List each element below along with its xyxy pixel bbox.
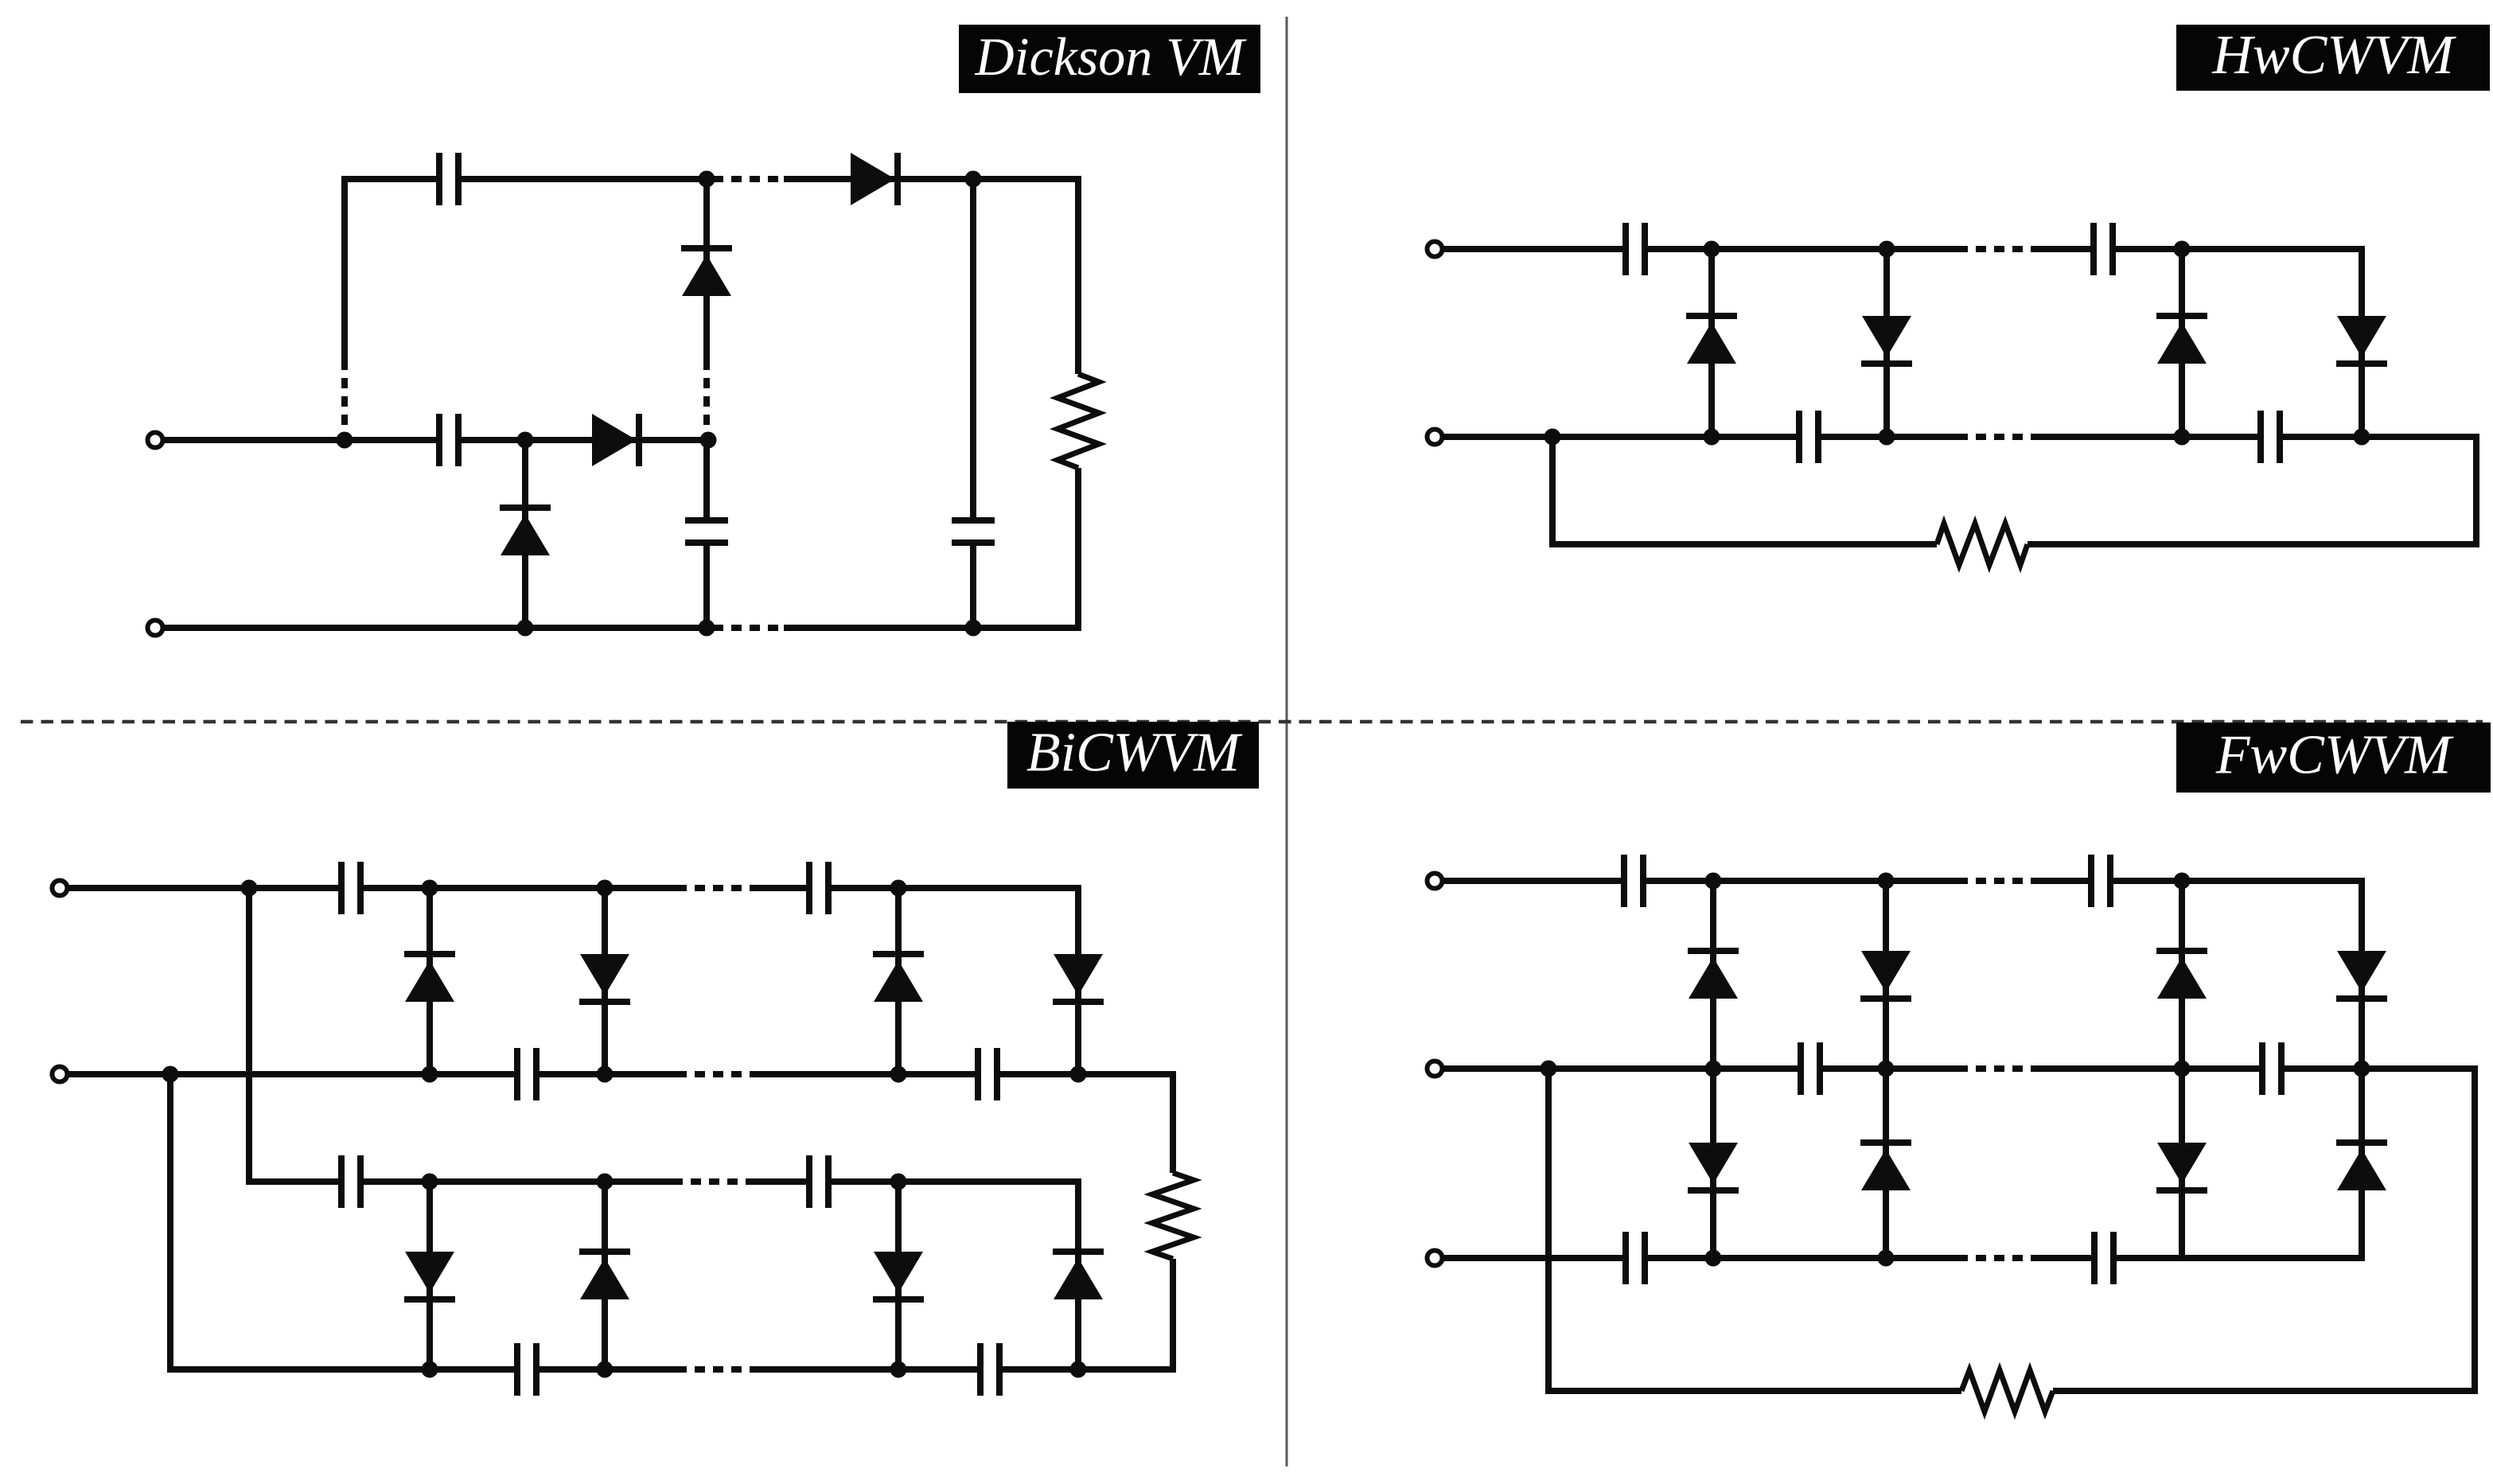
junction: FwCWVM rail1 at D18 column (1878, 873, 1895, 890)
diode D16 (BiCWVM lower, pointing up) (1053, 1252, 1104, 1299)
wire: Dickson load branch, R1 down to bottom rail corner (1075, 468, 1081, 631)
wire: BiCWVM rail4 dashed continuation (676, 1366, 752, 1373)
diode D10 (BiCWVM upper, pointing down) (579, 954, 630, 1002)
divider: vertical quadrant separator (1286, 17, 1288, 1466)
wire: BiCWVM rail2, dashes to C12 (752, 1071, 978, 1077)
diode D1 (Dickson clamp, pointing up) (500, 508, 551, 555)
wire: HwCWVM top rail, C6 to right corner (2113, 246, 2365, 252)
junction: HwCWVM bottom rail at D8 column (2354, 429, 2370, 446)
wire: FwCWVM D19 column (2179, 881, 2185, 1069)
junction: FwCWVM rail1 at D17 column (1705, 873, 1722, 890)
junction: HwCWVM bottom rail at D6 column (1879, 429, 1895, 446)
capacitor C8 (HwCWVM bottom rail stage n) (2261, 411, 2280, 463)
label: Dickson VM title box (959, 25, 1260, 93)
resistor R4 (FwCWVM load) (1961, 1370, 2053, 1412)
diode D14 (BiCWVM lower, pointing up) (579, 1252, 630, 1299)
junction: FwCWVM rail3 at D22 column (1878, 1250, 1895, 1267)
junction: BiCWVM rail4 at D15 column (890, 1361, 907, 1378)
wire: Dickson C3 to bottom rail (703, 543, 710, 628)
wire: BiCWVM rail3, C13 to dashes (360, 1178, 672, 1185)
wire: FwCWVM right load leg up to rail2 corner (2472, 1065, 2478, 1394)
diode D23 (FwCWVM lower, pointing down) (2156, 1143, 2207, 1190)
wire: BiCWVM rail4, C16 to right corner (999, 1366, 1176, 1373)
svg-text:HwCWVM: HwCWVM (2211, 25, 2456, 86)
capacitor C10 (BiCWVM rail1 stage n) (809, 862, 828, 914)
wire: Dickson bottom rail, dashes to load corner (784, 625, 1081, 631)
junction: BiCWVM rail4 at D16 column (1070, 1361, 1087, 1378)
diode D19 (FwCWVM upper, pointing up) (2156, 951, 2207, 999)
resistor R3 (BiCWVM load) (1152, 1173, 1194, 1259)
wire: BiCWVM rail1, C9 to dashes (360, 885, 676, 891)
junction: FwCWVM rail2 at D19 column (2174, 1061, 2191, 1077)
diode D17 (FwCWVM upper, pointing up) (1688, 951, 1739, 999)
wire: BiCWVM rail1, terminal to C9 (68, 885, 341, 891)
diode D6 (HwCWVM, pointing down) (1861, 316, 1912, 364)
wire: FwCWVM rail3, C22 to right corner (2113, 1255, 2365, 1261)
terminal: HwCWVM input top (1428, 242, 1443, 257)
wire: BiCWVM rail3 dashed continuation (672, 1178, 748, 1185)
diode D24 (FwCWVM lower, pointing up) (2336, 1143, 2387, 1190)
junction: node X4 on Dickson bottom rail (699, 620, 715, 637)
capacitor C2 (Dickson mid-rail coupling cap) (439, 414, 458, 466)
wire: FwCWVM D18 column (1883, 881, 1889, 1069)
wire: HwCWVM D5 column (1708, 249, 1715, 437)
wire: HwCWVM D7 column (2179, 249, 2185, 437)
wire: BiCWVM rail1 dashed continuation (676, 885, 752, 891)
wire: HwCWVM right leg down to load loop (2473, 434, 2479, 547)
capacitor C7 (HwCWVM bottom rail stage 1) (1799, 411, 1818, 463)
terminal: BiCWVM input bottom (53, 1067, 68, 1082)
junction: node X3 on Dickson top rail (699, 171, 715, 188)
capacitor C20 (FwCWVM rail2 stage n) (2262, 1042, 2281, 1095)
junction: BiCWVM rail1 at D11 column (890, 880, 907, 897)
wire: FwCWVM rail1, terminal to C17 (1443, 878, 1624, 884)
terminal: BiCWVM input top (53, 881, 68, 896)
wire: Dickson vertical from top rail down (solid part) (341, 176, 348, 360)
terminal: HwCWVM input bottom (1428, 430, 1443, 445)
wire: FwCWVM rail1, dashes to C18 (2034, 878, 2091, 884)
wire: Dickson vertical dashed into mid-rail node X1 (341, 360, 348, 434)
junction: FwCWVM rail2 at D20 column (2354, 1061, 2370, 1077)
junction: HwCWVM bottom rail at D5 column (1704, 429, 1720, 446)
wire: HwCWVM top rail, C5 to dashes (1645, 246, 1957, 252)
junction: FwCWVM rail3 at D21 column (1705, 1250, 1722, 1267)
wire: Dickson column X3 dashed segment into node X2 (703, 360, 710, 434)
wire: Dickson top rail, corner to C1 (341, 176, 439, 182)
wire: FwCWVM rail1, C18 to right corner (2110, 878, 2365, 884)
junction: HwCWVM top rail at D7 column (2174, 241, 2191, 258)
wire: BiCWVM rail1, C10 to right corner (828, 885, 1081, 891)
terminal: FwCWVM input top (1428, 874, 1443, 889)
wire: BiCWVM D13 column (427, 1182, 433, 1369)
junction: BiCWVM rail1 at crossover column (241, 880, 258, 897)
junction: BiCWVM rail3 at D15 column (890, 1174, 907, 1190)
junction: FwCWVM rail1 at D19 column (2174, 873, 2191, 890)
junction: HwCWVM bottom rail at D7 column (2174, 429, 2191, 446)
junction: BiCWVM rail2 at D11 column (890, 1066, 907, 1083)
junction: HwCWVM top rail at D6 column (1879, 241, 1895, 258)
wire: BiCWVM load branch from rail2 corner to R3 (1170, 1071, 1176, 1173)
wire: FwCWVM rail1, C17 to dashes (1643, 878, 1957, 884)
junction: BiCWVM rail4 at D13 column (422, 1361, 438, 1378)
wire: BiCWVM load branch R3 to rail4 corner (1170, 1259, 1176, 1373)
wire: BiCWVM D11 column (895, 888, 902, 1074)
wire: HwCWVM bottom rail dashed continuation (1957, 434, 2034, 440)
wire: HwCWVM load loop bottom right (2028, 541, 2479, 547)
capacitor C16 (BiCWVM rail4 stage n) (980, 1343, 999, 1396)
capacitor C4 (Dickson output smoothing cap) (952, 520, 995, 543)
junction: Dickson bottom rail at D1 column (517, 620, 534, 637)
junction: FwCWVM rail2 at D18 column (1878, 1061, 1895, 1077)
wire: BiCWVM D16 column from rail3 corner (1075, 1178, 1081, 1369)
divider: horizontal dashed quadrant separator (21, 720, 2483, 724)
wire: HwCWVM top rail, dashes to C6 (2034, 246, 2094, 252)
wire: Dickson column X2 down to C3 (703, 440, 710, 520)
capacitor C12 (BiCWVM rail2 stage n) (978, 1048, 997, 1100)
diode D13 (BiCWVM lower, pointing down) (404, 1252, 455, 1299)
wire: Dickson top rail dashed continuation (713, 176, 784, 182)
label: FwCWVM title box (2176, 723, 2491, 793)
capacitor C13 (BiCWVM rail3 stage 1) (341, 1155, 360, 1208)
junction: node X1 on Dickson mid rail (337, 432, 353, 449)
junction: BiCWVM rail2 at D10 column (597, 1066, 614, 1083)
diode D7 (HwCWVM, pointing up) (2156, 316, 2207, 364)
wire: FwCWVM rail3, dashes to C22 (2034, 1255, 2094, 1261)
wire: BiCWVM rail3, C14 to right corner (828, 1178, 1081, 1185)
wire: BiCWVM rail2, terminal to C11 (68, 1071, 517, 1077)
wire: FwCWVM D24 column to rail3 corner (2359, 1069, 2365, 1261)
wire: Dickson mid rail, terminal to C2 (162, 437, 439, 443)
wire: FwCWVM rail1 dashed continuation (1957, 878, 2034, 884)
junction: HwCWVM top rail at D5 column (1704, 241, 1720, 258)
svg-text:BiCWVM: BiCWVM (1026, 723, 1243, 784)
wire: BiCWVM rail4, dashes to C16 (752, 1366, 980, 1373)
capacitor C19 (FwCWVM rail2 stage 1) (1801, 1042, 1820, 1095)
junction: Dickson bottom rail at output cap column (965, 620, 982, 637)
wire: HwCWVM D8 column from top rail corner (2359, 246, 2365, 437)
wire: HwCWVM bottom rail, terminal to C7 (1443, 434, 1799, 440)
wire: Dickson top rail, C1 to node X3 (458, 176, 708, 182)
wire: FwCWVM D23 column (2179, 1069, 2185, 1258)
junction: Dickson top rail at output cap column (965, 171, 982, 188)
wire: HwCWVM bottom rail, C7 to dashes (1818, 434, 1957, 440)
diode D20 (FwCWVM upper, pointing down) (2336, 951, 2387, 999)
wire: BiCWVM D9 column (427, 888, 433, 1074)
label: BiCWVM title box (1007, 722, 1259, 789)
resistor R1 (Dickson load) (1058, 374, 1099, 468)
capacitor C5 (HwCWVM top rail stage 1) (1626, 223, 1645, 275)
capacitor C14 (BiCWVM rail3 stage n) (809, 1155, 828, 1208)
junction: BiCWVM rail3 at D13 column (422, 1174, 438, 1190)
wire: Dickson top rail, dashes through D4 to output corner (784, 176, 1081, 182)
diode D21 (FwCWVM lower, pointing down) (1688, 1143, 1739, 1190)
junction: FwCWVM rail2 at D17 column (1705, 1061, 1722, 1077)
capacitor C18 (FwCWVM rail1 stage n) (2091, 855, 2110, 907)
wire: Dickson bottom rail, terminal to node X4 (162, 625, 708, 631)
diode D5 (HwCWVM, pointing up) (1686, 316, 1737, 364)
wire: FwCWVM D22 column (1883, 1069, 1889, 1258)
wire: BiCWVM rail2, C11 to dashes (536, 1071, 676, 1077)
diode D2 (Dickson series, pointing right) (592, 414, 639, 466)
junction: FwCWVM rail2 to load loop (1541, 1061, 1557, 1077)
wire: Dickson load branch, top rail corner down to R1 (1075, 176, 1081, 374)
wire: Dickson column X3, top rail down through D3 (703, 179, 710, 360)
diode D9 (BiCWVM upper, pointing up) (404, 954, 455, 1002)
wire: BiCWVM D15 column (895, 1182, 902, 1369)
wire: BiCWVM D14 column (602, 1182, 608, 1369)
wire: FwCWVM rail2 dashed continuation (1957, 1065, 2034, 1072)
wire: BiCWVM rail2, C12 to right corner (997, 1071, 1176, 1077)
diode D12 (BiCWVM upper, pointing down) (1053, 954, 1104, 1002)
diode D8 (HwCWVM, pointing down) (2336, 316, 2387, 364)
wire: FwCWVM load loop bottom right (2053, 1388, 2478, 1394)
capacitor C11 (BiCWVM rail2 stage 1) (517, 1048, 536, 1100)
capacitor C6 (HwCWVM top rail stage n) (2094, 223, 2113, 275)
wire: BiCWVM rail4, left corner to C15 (167, 1366, 517, 1373)
wire: Dickson C4 to bottom rail (970, 543, 976, 628)
junction: BiCWVM rail2 at D12 column (1070, 1066, 1087, 1083)
junction: Dickson mid rail at D1 anode column (517, 432, 534, 449)
wire: BiCWVM crossover column rail1 to rail3 (246, 888, 252, 1185)
wire: HwCWVM top rail dashed continuation (1957, 246, 2034, 252)
wire: HwCWVM top rail, terminal to C5 (1443, 246, 1626, 252)
diode D18 (FwCWVM upper, pointing down) (1860, 951, 1911, 999)
junction: BiCWVM rail1 at D9 column (422, 880, 438, 897)
wire: FwCWVM left load leg, rail2 down across rail3 (1545, 1069, 1552, 1394)
capacitor C9 (BiCWVM rail1 stage 1) (341, 862, 360, 914)
terminal: FwCWVM input bottom (1428, 1251, 1443, 1266)
junction: BiCWVM rail2 at D9 column (422, 1066, 438, 1083)
junction: BiCWVM rail2 to bottom return (162, 1066, 179, 1083)
wire: BiCWVM D12 column from rail1 corner (1075, 885, 1081, 1074)
capacitor C15 (BiCWVM rail4 stage 1) (517, 1343, 536, 1396)
junction: BiCWVM rail3 at D14 column (597, 1174, 614, 1190)
junction: BiCWVM rail1 at D10 column (597, 880, 614, 897)
wire: HwCWVM left leg of load loop (1549, 437, 1556, 547)
junction: node X2 on Dickson mid rail (700, 432, 717, 449)
wire: BiCWVM rail1, dashes to C10 (752, 885, 809, 891)
wire: FwCWVM rail2, C19 to dashes (1820, 1065, 1957, 1072)
svg-text:FwCWVM: FwCWVM (2215, 725, 2454, 786)
wire: BiCWVM rail4, C15 to dashes (536, 1366, 676, 1373)
diode D11 (BiCWVM upper, pointing up) (873, 954, 924, 1002)
wire: FwCWVM rail3 dashed continuation (1957, 1255, 2034, 1261)
wire: Dickson output cap column, top rail to C4 (970, 179, 976, 520)
capacitor C22 (FwCWVM rail3 stage n) (2094, 1232, 2113, 1284)
wire: HwCWVM load loop bottom left (1549, 541, 1937, 547)
junction: HwCWVM bottom rail to load loop (1544, 429, 1561, 446)
capacitor C17 (FwCWVM rail1 stage 1) (1624, 855, 1643, 907)
wire: FwCWVM D21 column (1710, 1069, 1716, 1258)
wire: BiCWVM rail3, dashes to C14 (748, 1178, 809, 1185)
wire: HwCWVM D6 column (1883, 249, 1890, 437)
svg-text:Dickson VM: Dickson VM (974, 26, 1246, 87)
capacitor C1 (Dickson top-rail coupling cap) (439, 153, 458, 205)
diode D15 (BiCWVM lower, pointing down) (873, 1252, 924, 1299)
terminal: Dickson input - (lower left) (148, 621, 163, 636)
resistor R2 (HwCWVM load) (1937, 524, 2028, 565)
wire: BiCWVM rail2 dashed continuation (676, 1071, 752, 1077)
wire: Dickson mid rail, C2 through D2 to node X2 (458, 437, 708, 443)
diode D4 (Dickson series top, pointing right) (851, 153, 898, 205)
capacitor C3 (Dickson stage cap to bottom rail) (685, 520, 728, 543)
wire: FwCWVM rail2, terminal to C19 (1443, 1065, 1801, 1072)
wire: BiCWVM left return leg rail2 to rail4 (167, 1074, 173, 1373)
wire: HwCWVM bottom rail, C8 to right corner (2280, 434, 2479, 440)
terminal: FwCWVM input middle (1428, 1061, 1443, 1077)
capacitor C21 (FwCWVM rail3 stage 1) (1626, 1232, 1645, 1284)
wire: Dickson column of D1, mid rail to bottom rail (522, 440, 528, 628)
label: HwCWVM title box (2176, 25, 2490, 91)
wire: FwCWVM rail2, C20 to right corner (2281, 1065, 2478, 1072)
diode D22 (FwCWVM lower, pointing up) (1860, 1143, 1911, 1190)
wire: FwCWVM D17 column (1710, 881, 1716, 1069)
wire: FwCWVM rail2, dashes to C20 (2034, 1065, 2262, 1072)
wire: BiCWVM D10 column (602, 888, 608, 1074)
wire: FwCWVM rail3, C21 to dashes (1645, 1255, 1957, 1261)
wire: FwCWVM D20 column from rail1 corner (2359, 878, 2365, 1069)
diode D3 (Dickson inter-stage, pointing up) (681, 248, 732, 296)
junction: BiCWVM rail4 at D14 column (597, 1361, 614, 1378)
wire: Dickson bottom rail dashed continuation (713, 625, 784, 631)
terminal: Dickson input + (upper left) (148, 433, 163, 448)
wire: HwCWVM bottom rail, dashes to C8 (2034, 434, 2261, 440)
wire: FwCWVM rail3, terminal to C21 (1443, 1255, 1626, 1261)
wire: FwCWVM load loop bottom left (1545, 1388, 1961, 1394)
wire: BiCWVM rail3, corner to C13 (246, 1178, 341, 1185)
